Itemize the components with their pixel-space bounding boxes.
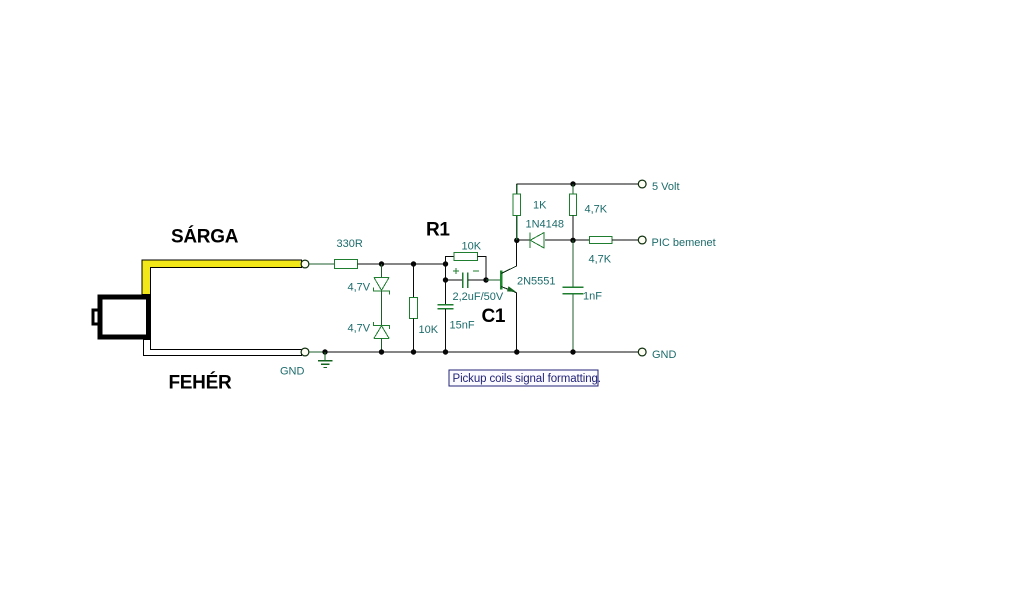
plus mark xyxy=(453,268,459,274)
svg-text:2,2uF/50V: 2,2uF/50V xyxy=(453,291,504,303)
svg-text:PIC bemenet: PIC bemenet xyxy=(652,237,716,249)
terminal circle input bottom xyxy=(301,348,309,356)
svg-text:330R: 330R xyxy=(337,238,363,250)
node A (zener junction) xyxy=(379,261,384,266)
node G (5V rail node) xyxy=(570,181,575,186)
svg-text:SÁRGA: SÁRGA xyxy=(171,225,239,247)
minus mark xyxy=(473,270,479,272)
wire collector node to 1K xyxy=(516,215,518,240)
zener diode D1 4,7V (cathode down) xyxy=(373,278,389,295)
wire ground rail left stub xyxy=(309,351,325,353)
terminal circle PIC bemenet xyxy=(638,236,646,244)
node H (PIC node) xyxy=(570,238,575,243)
wire base lead xyxy=(486,279,501,281)
resistor 10K vertical xyxy=(409,297,417,318)
wire collector up xyxy=(516,240,518,266)
wire C4 to ground rail xyxy=(572,294,574,352)
transistor Q1 2N5551 xyxy=(501,266,516,293)
node B (10K divider junction) xyxy=(411,261,416,266)
svg-text:4,7V: 4,7V xyxy=(348,282,371,294)
wire diode row left xyxy=(517,239,530,241)
wire 4,7K to node H xyxy=(572,215,574,240)
ground symbol xyxy=(318,352,333,367)
wire node D to C2 plus plate xyxy=(446,279,463,281)
wire top rail xyxy=(517,183,639,185)
white wire FEHÉR xyxy=(143,340,301,356)
wire R 10K to ground rail xyxy=(413,319,415,352)
terminal circle input top xyxy=(301,260,309,268)
wire node B down to R 10K xyxy=(413,264,415,297)
resistor 4,7K series xyxy=(590,237,613,244)
connector J1 (pickup plug) xyxy=(93,297,149,337)
wire node D down to C3 xyxy=(445,280,447,305)
node rail emitter xyxy=(514,349,519,354)
wire C3 to ground rail xyxy=(445,309,447,352)
svg-text:4,7K: 4,7K xyxy=(589,253,612,265)
wire node G down to 4,7K xyxy=(572,184,574,194)
node rail 10K xyxy=(411,349,416,354)
node F (collector node) xyxy=(514,238,519,243)
capacitor C2 2,2uF/50V electrolytic xyxy=(463,273,468,289)
node D (cap junction) xyxy=(443,277,448,282)
wire node C down xyxy=(445,264,447,280)
resistor 330R xyxy=(335,260,358,269)
node C (coupling junction) xyxy=(443,261,448,266)
terminal circle GND right xyxy=(638,348,646,356)
diode D3 1N4148 xyxy=(530,233,544,248)
zener diode D2 4,7V (cathode up) xyxy=(373,322,389,338)
svg-text:GND: GND xyxy=(652,349,677,361)
wire 1K to top rail xyxy=(516,184,518,194)
wire between zeners xyxy=(381,291,383,326)
svg-text:C1: C1 xyxy=(482,306,506,327)
node rail 1nF xyxy=(570,349,575,354)
svg-text:15nF: 15nF xyxy=(450,320,475,332)
node E (base node) xyxy=(483,277,488,282)
svg-text:4,7K: 4,7K xyxy=(585,203,608,215)
svg-text:2N5551: 2N5551 xyxy=(517,275,556,287)
resistor 1K xyxy=(513,194,520,215)
wire feedback right lead down xyxy=(478,256,487,280)
wire node A down to zener D1 xyxy=(381,264,383,278)
wire node C feedback up-left lead xyxy=(446,256,455,264)
resistor 4,7K vertical xyxy=(569,194,576,215)
capacitor C4 1nF xyxy=(563,287,584,294)
svg-text:1K: 1K xyxy=(533,199,547,211)
svg-text:Pickup coils signal formatting: Pickup coils signal formatting. xyxy=(453,373,601,385)
resistor R1 10K feedback xyxy=(454,252,478,260)
terminal circle 5 Volt xyxy=(638,180,646,188)
node rail 15nF xyxy=(443,349,448,354)
svg-text:FEHÉR: FEHÉR xyxy=(169,371,232,393)
svg-text:10K: 10K xyxy=(462,241,482,253)
yellow wire SÁRGA xyxy=(142,260,302,295)
node rail zener xyxy=(379,349,384,354)
caption box xyxy=(449,370,601,386)
svg-text:10K: 10K xyxy=(419,324,439,336)
wire main signal row xyxy=(358,263,446,265)
node ground left xyxy=(322,349,327,354)
svg-text:1nF: 1nF xyxy=(583,290,602,302)
capacitor C3 15nF xyxy=(438,305,454,309)
svg-text:GND: GND xyxy=(280,366,305,378)
wire ground rail xyxy=(325,351,638,353)
wire input to R330 xyxy=(309,263,335,265)
svg-text:5 Volt: 5 Volt xyxy=(652,181,680,193)
wire C2 to base node xyxy=(468,279,486,281)
wire emitter down xyxy=(516,293,518,352)
svg-text:4,7V: 4,7V xyxy=(348,322,371,334)
svg-text:1N4148: 1N4148 xyxy=(526,218,565,230)
wire 4,7K to PIC terminal xyxy=(612,239,638,241)
svg-text:R1: R1 xyxy=(426,219,450,240)
wire node H down to C4 xyxy=(572,240,574,287)
wire zener D2 to ground rail xyxy=(381,339,383,353)
wire diode to node H xyxy=(545,239,590,241)
